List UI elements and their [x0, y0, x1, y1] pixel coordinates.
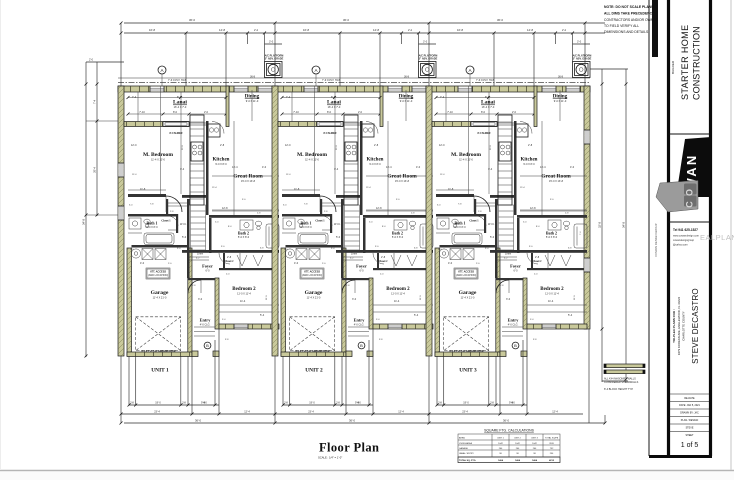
svg-text:7'-4: 7'-4 — [94, 99, 97, 104]
svg-text:UNIT 2: UNIT 2 — [305, 368, 323, 374]
svg-text:DRAWN BY: JAC: DRAWN BY: JAC — [680, 412, 699, 415]
svg-text:7'-6 O.PLT. HGT.: 7'-6 O.PLT. HGT. — [168, 79, 187, 82]
svg-text:NOTE: DO NOT SCALE PLANS: NOTE: DO NOT SCALE PLANS — [604, 5, 654, 9]
svg-text:26'-4: 26'-4 — [94, 167, 97, 173]
svg-text:BUILDER: BUILDER — [671, 60, 675, 74]
svg-text:AREA: AREA — [459, 436, 465, 439]
svg-text:7'-6 O.PLT. HGT.: 7'-6 O.PLT. HGT. — [476, 79, 495, 82]
svg-text:Floor Plan: Floor Plan — [319, 441, 379, 455]
svg-text:1404: 1404 — [532, 459, 538, 462]
svg-text:1 of 5: 1 of 5 — [681, 442, 699, 449]
svg-text:GARAGE: GARAGE — [459, 447, 469, 450]
svg-text:34'-8: 34'-8 — [622, 222, 626, 228]
svg-text:32'-8: 32'-8 — [598, 222, 602, 228]
svg-text:CHARLOTTE COUNTY: CHARLOTTE COUNTY — [682, 311, 686, 341]
svg-text:www.cowandesign.com: www.cowandesign.com — [673, 235, 699, 238]
svg-text:8'-4 BLOCK HEIGHT TYP.: 8'-4 BLOCK HEIGHT TYP. — [604, 388, 634, 391]
svg-text:Tel 941 625-1527: Tel 941 625-1527 — [673, 228, 698, 232]
svg-text:cowandesigngroup: cowandesigngroup — [673, 239, 695, 242]
svg-text:SQUARE FTG. CALCULATIONS: SQUARE FTG. CALCULATIONS — [484, 428, 534, 432]
svg-text:ALL DIMS TAKE PRECEDENCE: ALL DIMS TAKE PRECEDENCE — [604, 12, 655, 16]
svg-text:UNIT 1: UNIT 1 — [151, 368, 169, 374]
svg-text:UNIT 3: UNIT 3 — [459, 368, 477, 374]
svg-text:RE-DATE: RE-DATE — [684, 397, 695, 400]
svg-text:SHEET: SHEET — [686, 434, 695, 437]
svg-text:TOTAL SQ/FB: TOTAL SQ/FB — [545, 436, 559, 439]
svg-text:@yahoo.com: @yahoo.com — [673, 244, 688, 247]
svg-text:SCALE : 1/4" = 1'-0": SCALE : 1/4" = 1'-0" — [318, 456, 342, 460]
svg-text:STARTER HOME: STARTER HOME — [680, 25, 690, 100]
svg-text:COWAN DESIGN GROUP: COWAN DESIGN GROUP — [654, 223, 658, 256]
svg-text:34'-8: 34'-8 — [82, 219, 86, 225]
svg-text:9479 KOREAN AVE, ENGLEWOOD, FL: 9479 KOREAN AVE, ENGLEWOOD, FL 34224 — [677, 296, 681, 355]
svg-text:LANAI / ENTRY: LANAI / ENTRY — [459, 452, 474, 455]
svg-text:TOTAL SQ. FTG.: TOTAL SQ. FTG. — [459, 459, 476, 462]
svg-text:PLAN / DESIGN: PLAN / DESIGN — [681, 419, 699, 422]
svg-text:TO FIELD VERIFY ALL: TO FIELD VERIFY ALL — [604, 24, 639, 28]
svg-text:4212: 4212 — [549, 459, 555, 462]
svg-text:UNIT 1: UNIT 1 — [497, 437, 504, 439]
svg-text:DIMENSIONS AND DETAILS.: DIMENSIONS AND DETAILS. — [604, 30, 649, 34]
svg-text:UNIT 2: UNIT 2 — [514, 437, 521, 439]
svg-text:UNIT 3: UNIT 3 — [531, 437, 538, 439]
svg-text:O: O — [685, 189, 695, 196]
svg-text:1404: 1404 — [515, 459, 521, 462]
svg-text:STEVE: STEVE — [686, 427, 694, 430]
svg-text:CONTRACTORS AND/OR OWNER: CONTRACTORS AND/OR OWNER — [604, 18, 659, 22]
svg-text:1404: 1404 — [498, 459, 504, 462]
svg-text:7'-6 O.PLT. HGT.: 7'-6 O.PLT. HGT. — [322, 79, 341, 82]
svg-text:2'-0: 2'-0 — [89, 58, 94, 61]
svg-text:DATE: JAN 5, 2021: DATE: JAN 5, 2021 — [679, 404, 700, 407]
svg-text:TRI-PLEX PLANS FOR :: TRI-PLEX PLANS FOR : — [672, 309, 676, 343]
svg-text:STEVE DECASTRO: STEVE DECASTRO — [691, 288, 700, 364]
svg-text:C: C — [685, 201, 695, 208]
svg-text:CONSIDERED SHEARWALLS: CONSIDERED SHEARWALLS — [604, 381, 639, 384]
svg-text:EALPLANS.R: EALPLANS.R — [700, 233, 734, 242]
svg-text:LIVING AREA: LIVING AREA — [459, 442, 473, 445]
svg-text:CONSTRUCTION: CONSTRUCTION — [692, 26, 702, 100]
